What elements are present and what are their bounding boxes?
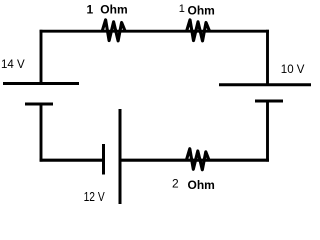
label 12 V <box>84 191 105 204</box>
wire bottom right segment <box>120 159 269 162</box>
wire left vertical upper <box>40 30 43 84</box>
battery V2 long plate (positive) <box>219 83 311 86</box>
wire bottom left segment <box>40 159 104 162</box>
svg-text:Ohm: Ohm <box>188 178 215 192</box>
svg-text:Ohm: Ohm <box>100 3 127 17</box>
wire left vertical lower <box>40 104 43 162</box>
resistor R3 2 Ohm <box>186 149 209 170</box>
battery V3 short plate (negative) <box>102 144 105 175</box>
resistor R1 1 Ohm <box>102 20 125 41</box>
battery V1 long plate (positive) <box>3 82 79 85</box>
label 1 Ohm value of R2 <box>179 3 215 18</box>
svg-text:1: 1 <box>87 2 94 16</box>
label 14 V <box>1 59 25 71</box>
label 10 V <box>281 64 305 76</box>
svg-text:Ohm: Ohm <box>188 3 215 17</box>
svg-text:10 V: 10 V <box>281 64 305 76</box>
wire right vertical lower <box>266 101 269 162</box>
svg-text:1: 1 <box>179 3 185 15</box>
svg-text:14 V: 14 V <box>1 59 25 71</box>
resistor R2 1 Ohm <box>187 20 210 41</box>
label 2 Ohm value of R3 <box>172 177 215 192</box>
battery V2 short plate (negative) <box>255 100 283 103</box>
svg-text:2: 2 <box>172 177 179 191</box>
battery V1 short plate (negative) <box>25 103 53 106</box>
label 1 Ohm value of R1 <box>87 2 128 16</box>
battery V3 long plate (positive) <box>119 109 122 204</box>
svg-text:12 V: 12 V <box>84 191 105 204</box>
wire top horizontal <box>40 30 269 33</box>
wire right vertical upper <box>266 30 269 85</box>
